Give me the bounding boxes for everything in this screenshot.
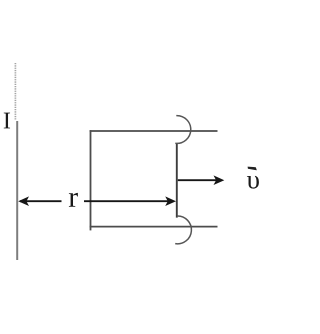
distance label r xyxy=(69,193,78,207)
wire (long straight wire carrying current I) xyxy=(16,121,18,260)
arrowhead right (r line) xyxy=(165,196,176,206)
velocity label upsilon xyxy=(247,176,259,189)
macron bar over upsilon xyxy=(248,167,257,171)
wire (loop top rail) xyxy=(90,130,218,132)
wire (sliding rod / loop right side) xyxy=(176,143,178,218)
wire (dashed upper extension of current-carrying wire) xyxy=(14,63,16,121)
arrowhead (velocity) xyxy=(214,175,225,185)
node r dimension line (left segment) xyxy=(20,200,62,202)
wire (loop left side) xyxy=(90,130,92,230)
velocity arrow xyxy=(178,179,217,181)
wire (loop bottom rail) xyxy=(90,226,218,228)
junction hop (bottom crossover arc) xyxy=(175,216,191,244)
node r dimension line (right segment) xyxy=(84,200,168,202)
junction hop (top crossover arc) xyxy=(175,116,190,144)
arrowhead left (r line) xyxy=(18,196,29,206)
current label I xyxy=(4,113,10,129)
